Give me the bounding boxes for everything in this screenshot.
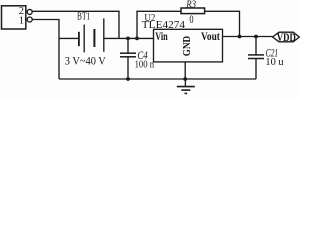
svg-text:BT1: BT1 — [77, 11, 90, 22]
battery BT1 plates — [78, 32, 80, 46]
wire pin1 down to ground rail — [32, 20, 59, 80]
wire battery to U2 Vin — [104, 37, 154, 39]
connector pin 2 circle — [27, 9, 32, 14]
connector J1 box — [2, 6, 26, 29]
svg-text:Vout: Vout — [201, 31, 220, 43]
svg-text:10 u: 10 u — [265, 57, 284, 68]
svg-text:1: 1 — [19, 16, 24, 27]
capacitor C4 plates — [120, 52, 136, 54]
wire Vout to VDD — [223, 36, 274, 38]
net flag VDD — [273, 32, 300, 42]
capacitor C4 wire to rail — [127, 57, 129, 79]
node dot riser — [135, 37, 139, 41]
resistor R3 body — [181, 8, 205, 14]
node dot C4 top — [126, 37, 130, 41]
capacitor C4 wire down — [127, 38, 129, 53]
node dot C4 bottom — [126, 77, 130, 81]
capacitor C21 wire to rail — [255, 59, 257, 80]
wire to battery left — [59, 37, 79, 39]
svg-text:3 V~40 V: 3 V~40 V — [65, 56, 107, 68]
riser to R3 — [137, 11, 181, 38]
regulator U2 box — [154, 29, 223, 62]
svg-text:TLE4274: TLE4274 — [142, 19, 186, 31]
svg-text:0: 0 — [189, 14, 193, 26]
capacitor C21 plates — [248, 54, 264, 56]
U2 GND pin wire — [184, 62, 186, 79]
connector pin 1 circle — [27, 17, 32, 22]
svg-text:GND: GND — [182, 35, 193, 56]
capacitor C21 wire down — [255, 37, 257, 55]
svg-text:Vin: Vin — [155, 31, 168, 43]
wire pin2 top rail to Vin node — [33, 11, 120, 38]
node dot GND rail — [183, 77, 187, 81]
node dot R3 drop — [238, 35, 242, 39]
svg-text:R3: R3 — [185, 0, 196, 11]
ground symbol — [184, 79, 186, 86]
wire R3 to Vout node — [205, 11, 240, 36]
node dot C21 tap — [254, 35, 258, 39]
svg-text:100 n: 100 n — [135, 59, 155, 71]
ground bottom rail — [59, 78, 256, 80]
svg-text:VDD: VDD — [277, 32, 296, 44]
